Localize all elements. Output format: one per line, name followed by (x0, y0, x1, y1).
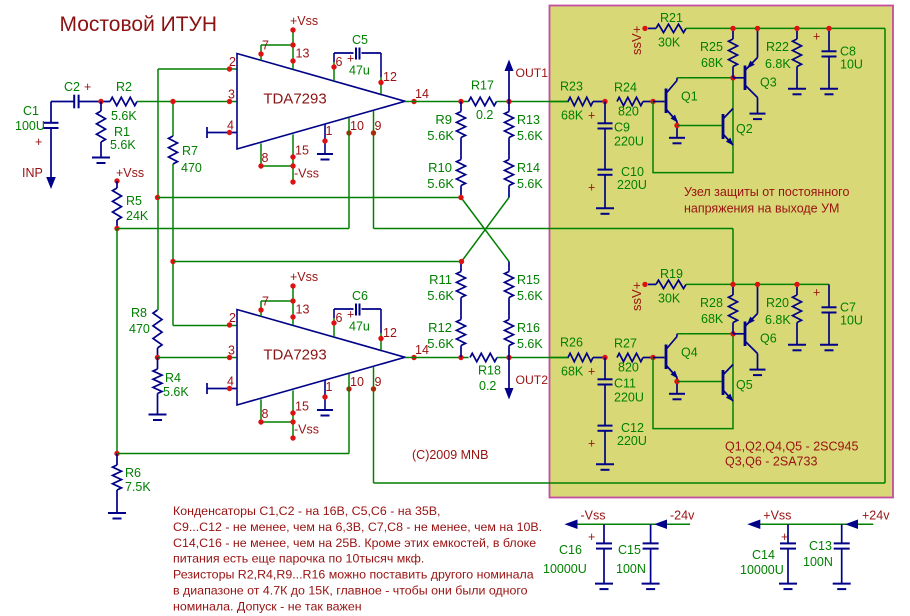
svg-text:6: 6 (336, 55, 343, 69)
svg-text:R9: R9 (435, 112, 452, 127)
svg-text:10: 10 (350, 375, 364, 389)
svg-text:C13: C13 (809, 539, 832, 553)
svg-text:+: + (813, 30, 820, 44)
svg-text:Конденсаторы С1,С2 - на 16В, С: Конденсаторы С1,С2 - на 16В, С5,С6 - на … (173, 504, 440, 518)
svg-text:C1: C1 (23, 104, 39, 118)
svg-text:10: 10 (350, 119, 364, 133)
svg-text:+24v: +24v (862, 509, 890, 523)
svg-text:5.6K: 5.6K (111, 109, 137, 123)
svg-text:47u: 47u (349, 64, 370, 78)
svg-text:в диапазоне от 4.7К до 15К, гл: в диапазоне от 4.7К до 15К, главное - чт… (173, 584, 528, 598)
svg-text:R20: R20 (766, 296, 789, 310)
svg-text:7: 7 (262, 295, 269, 309)
svg-text:100N: 100N (803, 555, 833, 569)
svg-text:4: 4 (227, 119, 234, 133)
svg-text:5.6K: 5.6K (517, 177, 543, 191)
svg-text:5.6K: 5.6K (427, 128, 454, 143)
svg-text:220U: 220U (614, 391, 644, 405)
svg-text:R8: R8 (131, 306, 147, 320)
svg-text:+: + (35, 135, 42, 149)
svg-text:10U: 10U (840, 314, 863, 328)
svg-text:+: + (588, 530, 595, 544)
svg-text:100U: 100U (15, 119, 45, 133)
svg-text:+: + (813, 286, 820, 300)
svg-text:2: 2 (229, 311, 236, 325)
svg-text:1: 1 (326, 380, 333, 394)
svg-text:R12: R12 (428, 320, 452, 335)
svg-text:0.2: 0.2 (479, 379, 496, 393)
svg-text:7: 7 (262, 39, 269, 53)
svg-text:14: 14 (415, 87, 429, 101)
svg-text:Q5: Q5 (736, 378, 753, 392)
svg-text:15: 15 (295, 400, 309, 414)
svg-text:C14: C14 (752, 548, 775, 562)
svg-text:220U: 220U (614, 135, 644, 149)
svg-text:-Vss: -Vss (294, 423, 319, 437)
svg-text:С9...С12 - не менее, чем на 6,: С9...С12 - не менее, чем на 6,3В, С7,С8 … (173, 520, 542, 534)
svg-text:C10: C10 (621, 165, 644, 179)
svg-text:3: 3 (228, 88, 235, 102)
svg-text:R16: R16 (517, 321, 540, 335)
svg-text:R5: R5 (126, 194, 142, 208)
svg-text:68K: 68K (561, 365, 584, 379)
svg-text:напряжения на выходе УМ: напряжения на выходе УМ (684, 202, 839, 216)
svg-text:+Vss: +Vss (763, 509, 791, 523)
svg-text:Q1,Q2,Q4,Q5 - 2SC945: Q1,Q2,Q4,Q5 - 2SC945 (725, 440, 858, 454)
svg-text:R28: R28 (700, 296, 723, 310)
svg-text:Q3: Q3 (760, 76, 777, 90)
svg-text:470: 470 (129, 322, 150, 336)
svg-text:C7: C7 (840, 301, 856, 315)
svg-text:С14,С16 - не менее, чем на 25В: С14,С16 - не менее, чем на 25В. Кроме эт… (173, 536, 536, 550)
svg-text:5.6K: 5.6K (427, 336, 454, 351)
svg-text:820: 820 (618, 105, 639, 119)
svg-text:R17: R17 (471, 79, 494, 93)
svg-text:100N: 100N (616, 562, 646, 576)
svg-text:ssV+: ssV+ (629, 26, 644, 55)
svg-text:TDA7293: TDA7293 (263, 347, 326, 364)
svg-text:9: 9 (375, 375, 382, 389)
svg-text:OUT1: OUT1 (516, 66, 549, 80)
svg-text:4: 4 (227, 375, 234, 389)
svg-text:C5: C5 (352, 33, 368, 47)
svg-text:-24v: -24v (670, 509, 695, 523)
svg-text:8: 8 (262, 151, 269, 165)
svg-text:(C)2009 MNB: (C)2009 MNB (412, 448, 488, 462)
svg-text:5.6K: 5.6K (517, 129, 543, 143)
svg-text:TDA7293: TDA7293 (263, 91, 326, 108)
svg-text:6.8K: 6.8K (765, 313, 791, 327)
svg-text:R19: R19 (660, 267, 683, 281)
svg-text:R1: R1 (114, 125, 130, 139)
svg-text:INP: INP (22, 166, 43, 180)
svg-text:+Vss: +Vss (290, 14, 318, 28)
svg-text:2: 2 (229, 55, 236, 69)
svg-text:30K: 30K (658, 36, 681, 50)
svg-text:R18: R18 (478, 364, 501, 378)
svg-text:R7: R7 (182, 144, 198, 158)
svg-text:15: 15 (295, 144, 309, 158)
svg-text:R4: R4 (165, 371, 181, 385)
svg-text:OUT2: OUT2 (516, 373, 549, 387)
svg-text:R23: R23 (560, 80, 583, 94)
svg-text:6.8K: 6.8K (765, 57, 791, 71)
svg-text:+Vss: +Vss (116, 166, 144, 180)
svg-text:R25: R25 (700, 40, 723, 54)
svg-text:470: 470 (181, 161, 202, 175)
svg-text:-Vss: -Vss (581, 509, 606, 523)
svg-text:R27: R27 (614, 337, 637, 351)
svg-text:+: + (588, 181, 595, 195)
svg-text:1: 1 (326, 124, 333, 138)
svg-text:C2: C2 (64, 80, 80, 94)
svg-text:+: + (588, 109, 595, 123)
svg-text:Q6: Q6 (760, 332, 777, 346)
svg-text:R13: R13 (517, 113, 540, 127)
svg-text:68K: 68K (561, 109, 584, 123)
svg-text:+: + (588, 437, 595, 451)
svg-text:10000U: 10000U (740, 563, 784, 577)
svg-text:68K: 68K (701, 312, 724, 326)
svg-text:68K: 68K (701, 56, 724, 70)
svg-text:R15: R15 (517, 273, 540, 287)
svg-text:7.5K: 7.5K (125, 480, 151, 494)
svg-text:+: + (588, 365, 595, 379)
svg-text:R11: R11 (429, 272, 452, 287)
svg-text:24K: 24K (126, 209, 149, 223)
svg-text:C12: C12 (621, 421, 644, 435)
svg-text:ssV+: ssV+ (629, 282, 644, 311)
svg-text:220U: 220U (617, 434, 647, 448)
svg-text:питания есть еще парочка по 10: питания есть еще парочка по 10тысяч мкф. (173, 552, 424, 566)
svg-text:+Vss: +Vss (290, 270, 318, 284)
svg-text:Q1: Q1 (681, 90, 698, 104)
svg-text:5.6K: 5.6K (427, 176, 454, 191)
svg-text:C9: C9 (614, 121, 630, 135)
svg-text:C8: C8 (840, 45, 856, 59)
svg-text:0.2: 0.2 (476, 108, 493, 122)
svg-text:+: + (84, 80, 91, 94)
svg-text:47u: 47u (349, 320, 370, 334)
svg-text:R24: R24 (614, 81, 637, 95)
svg-text:220U: 220U (617, 178, 647, 192)
svg-text:8: 8 (262, 407, 269, 421)
svg-text:R6: R6 (125, 466, 141, 480)
svg-text:R2: R2 (116, 80, 132, 94)
svg-text:5.6K: 5.6K (163, 385, 189, 399)
svg-text:12: 12 (383, 70, 397, 84)
svg-text:6: 6 (336, 311, 343, 325)
svg-text:Q2: Q2 (736, 122, 753, 136)
svg-text:Мостовой ИТУН: Мостовой ИТУН (60, 13, 218, 36)
svg-text:820: 820 (618, 361, 639, 375)
svg-text:13: 13 (296, 47, 310, 61)
svg-text:3: 3 (228, 344, 235, 358)
svg-text:+: + (781, 530, 788, 544)
svg-text:R10: R10 (428, 160, 452, 175)
svg-text:C15: C15 (618, 543, 641, 557)
svg-text:5.6K: 5.6K (517, 337, 543, 351)
svg-text:R14: R14 (517, 161, 540, 175)
svg-text:Узел защиты от постоянного: Узел защиты от постоянного (684, 185, 849, 199)
svg-text:5.6K: 5.6K (110, 138, 136, 152)
svg-text:5.6K: 5.6K (427, 288, 454, 303)
svg-text:C6: C6 (352, 289, 368, 303)
svg-text:C11: C11 (614, 377, 636, 391)
svg-text:9: 9 (375, 119, 382, 133)
svg-text:13: 13 (296, 303, 310, 317)
svg-text:30K: 30K (658, 292, 681, 306)
svg-text:R22: R22 (766, 40, 789, 54)
svg-text:10U: 10U (840, 58, 863, 72)
svg-text:5.6K: 5.6K (517, 289, 543, 303)
svg-text:Резисторы R2,R4,R9...R16 можно: Резисторы R2,R4,R9...R16 можно поставить… (173, 568, 534, 582)
svg-text:номинала. Допуск - не так важе: номинала. Допуск - не так важен (173, 599, 362, 613)
svg-text:12: 12 (383, 326, 397, 340)
svg-text:Q4: Q4 (681, 346, 698, 360)
svg-text:C16: C16 (559, 543, 582, 557)
svg-text:-Vss: -Vss (294, 167, 319, 181)
svg-text:10000U: 10000U (543, 562, 587, 576)
svg-text:R26: R26 (560, 336, 583, 350)
svg-text:Q3,Q6 - 2SA733: Q3,Q6 - 2SA733 (725, 455, 817, 469)
svg-text:R21: R21 (660, 11, 683, 25)
